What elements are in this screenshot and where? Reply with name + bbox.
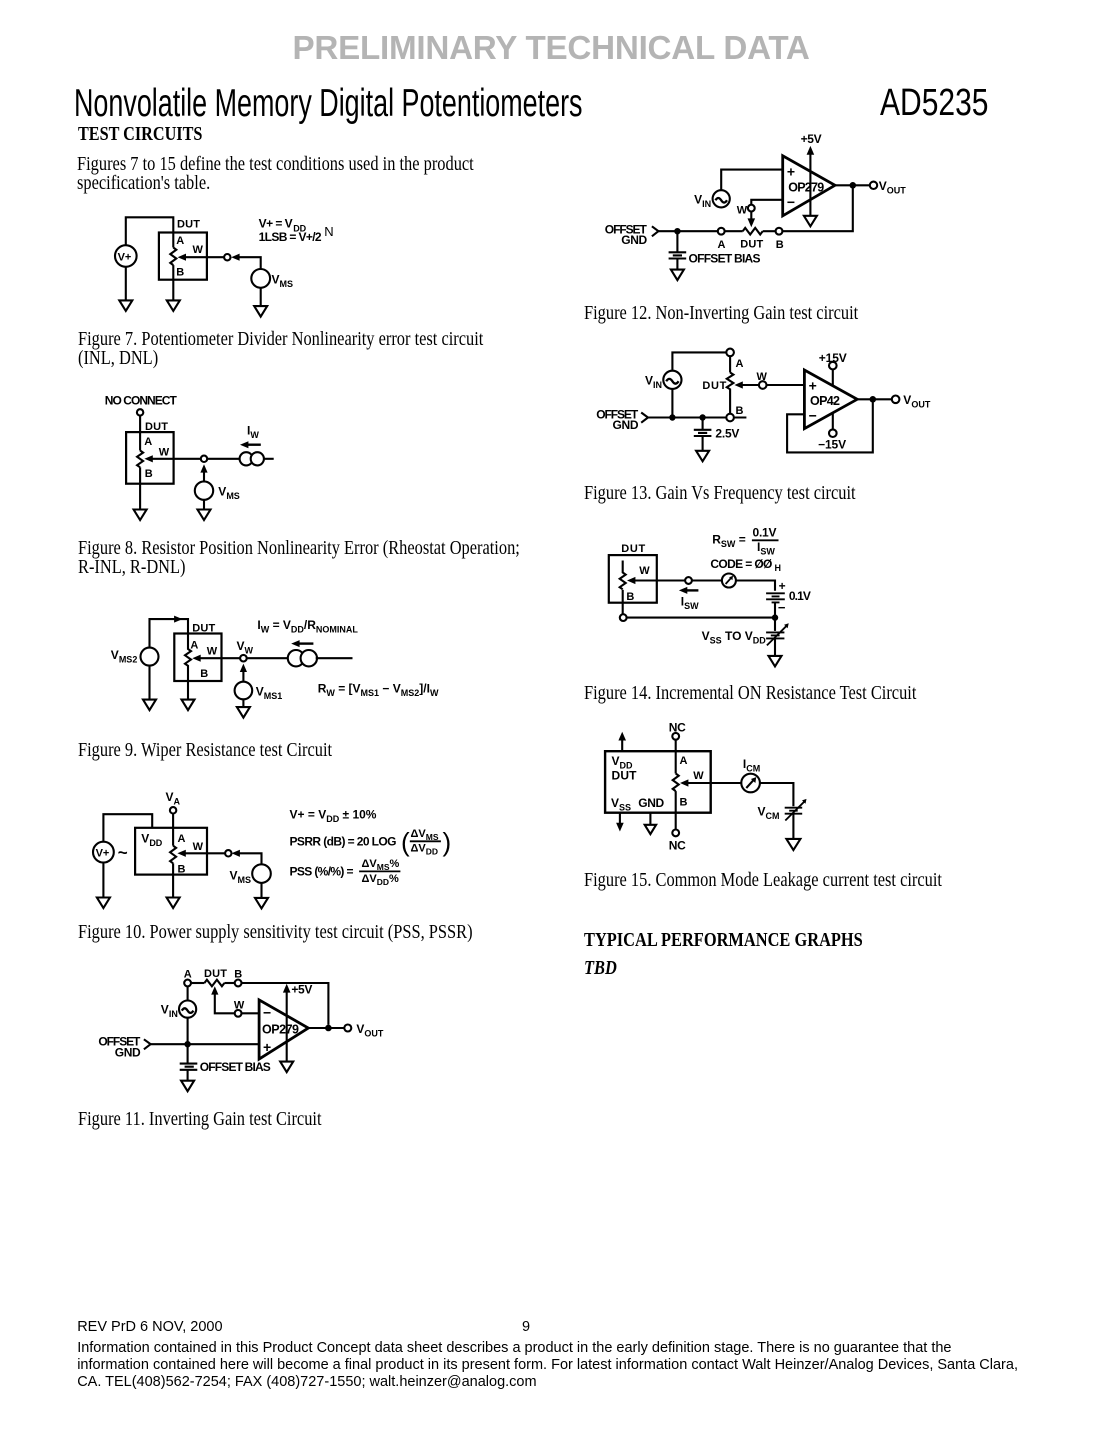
arrow IW direction [291,640,313,647]
label VSS [611,796,631,813]
svg-text:V+: V+ [96,848,110,860]
node B [620,614,627,621]
wire ammeter to VCM [760,783,794,806]
wire A to potentiometer [675,751,677,773]
output wire [857,398,891,400]
wire B to output junction [782,189,852,232]
svg-text:DUT: DUT [612,768,638,782]
wire node to ammeter [692,579,722,581]
label DUT [145,421,168,433]
svg-text:B: B [776,239,784,251]
label DUT [204,968,227,980]
caption figure 15 [584,871,942,890]
ground below B [182,700,195,711]
VDD arrow [618,732,626,752]
pin A label [680,755,688,767]
wire VMS to ground [203,500,205,510]
svg-text:PSS (%/%) =: PSS (%/%) = [290,865,354,879]
svg-text:ΔVDD: ΔVDD [411,843,439,857]
wire NC to resistor [139,416,141,451]
label VA [166,790,181,807]
source VMS [251,269,293,289]
svg-text:VMS2: VMS2 [111,648,138,665]
formula RW = [VMS1 - VMS2]/IW [318,681,439,698]
ground below VMS2 [143,700,156,711]
battery OFFSET BIAS [669,252,761,266]
label VDD [141,832,163,849]
label DUT [621,543,645,555]
node NC [137,409,143,415]
wire VIN to op-amp non-inverting input [721,170,783,191]
svg-text:DUT: DUT [740,238,763,250]
ground below VCM [786,839,800,850]
potentiometer R DUT [170,846,176,864]
svg-text:VMS1: VMS1 [256,684,283,701]
pin B label [176,266,184,278]
svg-text:−: − [778,600,786,615]
pin B label [680,796,688,808]
section heading [78,124,202,144]
source VIN [694,190,730,209]
svg-text:ΔVMS%: ΔVMS% [362,858,400,872]
wire VIN to offset rail junction [187,1018,189,1044]
source V+ [93,842,114,863]
svg-text:H: H [775,563,782,573]
svg-text:VA: VA [166,790,181,807]
wire B to output [242,983,329,1025]
wiper arrow wire to node [177,850,225,857]
wire A to potentiometer [729,356,731,372]
wire B to ground [172,863,174,897]
pin label B [776,239,784,251]
ground below VMS [255,898,268,909]
wire battery to ground [187,1070,189,1081]
ammeter ICM [741,774,760,793]
svg-text:DUT: DUT [204,968,227,980]
offset gnd chevron [144,1039,151,1049]
svg-text:NO CONNECT: NO CONNECT [105,394,178,408]
node -15V [818,413,846,452]
variable source VSS to VDD [766,623,789,645]
svg-text:VMS: VMS [218,484,240,501]
wire VMS1 to ground [242,699,244,707]
svg-text:B: B [178,863,186,875]
formula 1LSB = V+/2^N [259,224,334,244]
svg-text:A: A [178,833,186,845]
source VIN [161,1001,196,1020]
ground below V+ [97,898,110,909]
svg-text:VIN: VIN [161,1003,178,1020]
ground below variable source [769,656,782,667]
node +15V [819,351,847,386]
pin W label [193,244,204,256]
wire B pot to node [622,590,624,614]
svg-text:OP279: OP279 [788,180,824,194]
wire battery to ground [676,259,678,270]
pin B label [234,968,242,980]
label NO CONNECT [105,394,178,408]
arrow IW direction [240,441,261,448]
svg-text:VMS: VMS [230,869,252,886]
wire W to op-amp inverting input [751,200,782,205]
caption figure 11 [78,1110,322,1129]
caption figure 12 [584,304,858,323]
wire junction to battery [187,1044,189,1063]
label ICM [743,757,760,774]
svg-text:A: A [144,436,152,448]
label NC top [669,721,686,735]
svg-text:−: − [809,408,817,424]
svg-text:A: A [736,358,744,370]
svg-text:VCM: VCM [758,804,780,821]
label DUT [740,238,763,250]
svg-text:OP279: OP279 [262,1023,299,1037]
svg-text:A: A [680,755,688,767]
formula PSRR [290,827,452,857]
wire VCM to ground [792,814,794,839]
svg-text:ΔVDD%: ΔVDD% [362,873,400,887]
svg-text:A: A [176,235,184,247]
node A [184,980,191,987]
svg-text:VIN: VIN [694,192,711,209]
svg-text:GND: GND [638,796,664,810]
ground below battery [671,270,684,281]
wire current source right stub [316,657,353,659]
wire B to NC bottom [675,791,677,829]
svg-text:V+ = V: V+ = V [259,217,293,231]
svg-text:W: W [193,841,204,853]
wiper arrow wire to W node [734,381,759,388]
potentiometer R DUT [727,373,734,414]
wire node to current source [207,458,240,460]
label DUT [192,623,215,635]
node W [224,254,230,260]
typical performance graphs heading [584,931,863,950]
svg-text:OP42: OP42 [810,394,840,408]
node B [726,414,734,422]
pin A label [190,640,198,652]
node wiper [685,577,692,584]
svg-text:W: W [193,244,204,256]
label GND [638,796,664,810]
pin W label [159,447,170,459]
wiper arrow [178,254,224,261]
ground below V+ [119,300,132,311]
wire NC to box [675,740,677,752]
svg-text:W: W [159,447,170,459]
battery 0.1V [766,593,785,602]
wire bottom rail [627,617,775,619]
wire offset rail [648,416,746,418]
label NC bottom [669,839,686,853]
pin B label [736,405,744,417]
junction output feedback [325,1025,332,1032]
svg-text:DUT: DUT [177,218,200,230]
potentiometer R DUT [170,248,176,266]
label VDD [612,754,634,771]
label +5V [801,132,822,146]
op-amp U2 OP42 [804,370,857,429]
wire V+ to ground [125,267,127,301]
arrow VMS to node [232,850,262,865]
battery OFFSET BIAS [180,1060,271,1074]
svg-text:RW = [VMS1 − VMS2]/IW: RW = [VMS1 − VMS2]/IW [318,681,439,698]
svg-text:~: ~ [118,843,128,862]
wiper arrow wire to node [192,655,240,662]
svg-text:+5V: +5V [801,132,822,146]
svg-text:VW: VW [237,639,254,656]
op-amp U1 OP279 [783,156,835,216]
wire junction to battery [676,231,678,252]
svg-text:+: + [779,579,786,593]
label ~ [118,843,128,862]
header: PRELIMINARY TECHNICAL DATA [293,32,810,65]
ground GND pin [645,813,656,834]
pin A label [144,436,152,448]
node W [748,205,755,212]
pin A label [184,968,192,980]
offset gnd chevron [652,226,659,236]
wire VMS to ground [260,883,262,898]
ground below VMS [198,510,211,521]
svg-text:N: N [324,224,333,239]
svg-text:ICM: ICM [743,757,760,774]
node A [718,228,725,235]
pin A label [178,833,186,845]
potentiometer R DUT [185,630,191,671]
current source IW [288,650,317,666]
wire B to ground [187,671,189,700]
svg-text:DUT: DUT [702,380,726,392]
wire VMS to ground [260,288,262,306]
pin B label [145,468,153,480]
label VW [237,639,254,656]
feedback wire [787,403,873,453]
source VMS [230,864,271,885]
svg-text:B: B [736,405,744,417]
svg-text:IW = VDD/RNOMINAL: IW = VDD/RNOMINAL [257,618,358,635]
source VMS1 [235,682,283,701]
label DUT [702,380,726,392]
node VOUT [892,393,931,410]
potentiometer R DUT [137,451,143,468]
pin B label [200,668,208,680]
source VMS [195,481,240,501]
node VW [240,655,247,662]
junction bottom [772,614,778,620]
node W [235,1010,242,1017]
svg-text:GND: GND [621,233,647,247]
arrow VMS1 to node [240,664,247,682]
svg-text:(: ( [401,827,410,857]
formula IW = VDD/RNOMINAL [257,618,358,635]
VSS arrow [616,813,624,832]
formula V+ = VDD [259,217,307,234]
svg-text:GND: GND [115,1045,141,1059]
wire +5V through op-amp to ground [286,992,288,1062]
formula PSS [290,858,401,887]
wire junction to battery [702,418,704,430]
node B [235,980,242,987]
ground below op-amp [804,216,817,227]
svg-text:GND: GND [613,418,639,432]
caption figure 9 [78,741,332,760]
arrow from VMS to node [231,254,261,269]
junction offset bias [674,228,680,234]
label IW [247,423,259,440]
node NC bottom [672,830,679,837]
svg-text:2.5V: 2.5V [715,427,739,441]
wire A to resistor [725,230,743,232]
wire V+ top to DUT A [126,217,174,247]
svg-text:ISW: ISW [757,540,775,557]
pin A label [176,235,184,247]
label + [779,579,786,593]
node W [759,381,767,389]
svg-text:ΔVMS: ΔVMS [411,828,439,842]
label ISW [681,595,699,612]
svg-text:1LSB = V+/2: 1LSB = V+/2 [259,230,322,244]
ground below op-amp [280,1062,293,1073]
label DUT [612,768,638,782]
caption figure 13 [584,484,856,503]
+5V arrow [807,146,815,155]
label OFFSET GND [98,1035,141,1060]
DUT box [135,828,207,875]
DUT box [126,432,174,484]
caption figure 10 [78,923,473,942]
ground below B [134,510,147,521]
formula V+ = VDD +/- 10% [290,808,377,825]
arrow VMS to node [200,464,207,481]
pin W label [207,646,218,658]
wire current source right stub [264,458,274,460]
svg-text:−: − [787,194,795,210]
source VIN [645,371,682,390]
ground below VMS [254,306,267,317]
node NC top [672,733,679,740]
wire battery to junction [774,602,776,617]
pin W label [693,770,704,782]
svg-text:VOUT: VOUT [903,393,931,410]
DUT box [174,634,221,682]
wire offset rail to op-amp non-inverting input [151,1043,260,1045]
wire junction to variable source [774,618,776,631]
node A [726,349,743,371]
svg-text:B: B [176,266,184,278]
label minus [778,600,786,615]
pin B label [626,591,634,603]
wire A to VIN [187,986,189,1000]
junction VIN [669,414,675,420]
wire W to op-amp non-inverting input [767,384,805,386]
ground below battery [181,1081,194,1092]
pin label A [718,239,726,251]
wire VIN to A [672,352,726,370]
svg-text:+: + [809,377,817,393]
svg-text:+: + [263,1039,271,1055]
svg-text:IW: IW [247,423,259,440]
svg-text:OFFSET BIAS: OFFSET BIAS [689,252,761,266]
svg-text:−: − [263,1004,271,1020]
wire VMS2 to DUT A with arrow [150,616,189,648]
label OFFSET GND [605,222,648,247]
node W [225,850,231,856]
svg-text:0.1V: 0.1V [753,526,777,540]
svg-text:W: W [737,204,748,216]
svg-text:VOUT: VOUT [356,1022,384,1039]
output wire [835,184,870,186]
svg-text:B: B [200,668,208,680]
arrow ISW direction [679,587,699,594]
DUT box [605,751,711,813]
label VSS TO VDD [702,629,767,646]
svg-text:V+: V+ [118,251,132,263]
svg-text:NC: NC [669,839,686,853]
ground below B [167,300,180,311]
label DUT [177,218,200,230]
formula RSW = 0.1V/ISW [712,526,778,557]
caption figure 14 [584,684,916,703]
label OFFSET GND [596,407,639,432]
wire resistor to B [224,982,234,984]
svg-text:+5V: +5V [291,982,312,996]
caption figure 8 [78,539,520,576]
wire W to op-amp inverting input [242,1012,260,1014]
node VOUT [344,1022,384,1039]
source V+ [115,245,137,267]
svg-text:0.1V: 0.1V [789,589,811,603]
part number [880,84,988,122]
ground below B [167,898,180,909]
svg-text:VOUT: VOUT [879,179,907,196]
svg-text:A: A [718,239,726,251]
junction VIN offset rail [184,1041,190,1047]
junction battery [699,414,705,420]
svg-text:+: + [787,164,795,180]
footer [77,1319,222,1336]
wiper arrow wire to node [627,577,685,584]
wire V+ to VDD box top [103,814,152,842]
pin B label [178,863,186,875]
label 0.1V [789,589,811,603]
ground below battery [696,451,709,462]
svg-text:OFFSET BIAS: OFFSET BIAS [200,1060,271,1074]
junction output feedback [870,396,877,403]
svg-text:−15V: −15V [818,438,846,452]
svg-text:B: B [626,591,634,603]
wiper arrow wire to node [144,455,200,462]
svg-text:DUT: DUT [621,543,645,555]
svg-text:PSRR (dB) = 20 LOG: PSRR (dB) = 20 LOG [290,834,397,848]
ammeter ISW [722,574,736,588]
wire B to ground [172,265,174,300]
wire ammeter to battery [736,581,775,591]
source VMS2 [111,648,159,666]
wire offset rail to A [658,230,717,232]
potentiometer R DUT [673,774,679,792]
svg-text:W: W [639,565,650,577]
resistor R DUT [743,228,763,235]
offset gnd chevron [641,413,648,423]
DUT box [609,555,657,603]
svg-text:VSS TO VDD: VSS TO VDD [702,629,767,646]
TBD [584,959,617,978]
output wire [308,1027,344,1029]
node B [776,228,783,235]
wire VA to pot A [172,814,174,846]
variable source VCM [785,799,807,821]
